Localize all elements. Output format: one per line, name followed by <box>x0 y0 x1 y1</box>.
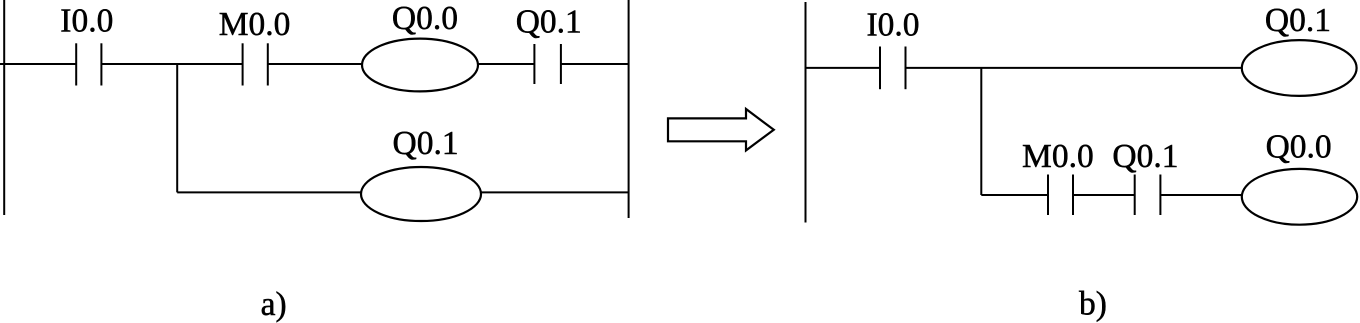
svg-text:b): b) <box>1079 286 1107 323</box>
svg-text:I0.0: I0.0 <box>867 6 920 43</box>
svg-text:I0.0: I0.0 <box>60 3 113 40</box>
svg-text:M0.0: M0.0 <box>219 6 291 43</box>
svg-text:Q0.1: Q0.1 <box>393 125 459 162</box>
svg-text:Q0.1: Q0.1 <box>1112 138 1178 175</box>
svg-text:Q0.1: Q0.1 <box>1265 2 1331 39</box>
svg-text:Q0.0: Q0.0 <box>392 0 458 37</box>
svg-text:Q0.0: Q0.0 <box>1266 129 1332 166</box>
svg-text:a): a) <box>261 286 287 323</box>
svg-text:Q0.1: Q0.1 <box>516 4 582 41</box>
svg-text:M0.0: M0.0 <box>1022 138 1094 175</box>
